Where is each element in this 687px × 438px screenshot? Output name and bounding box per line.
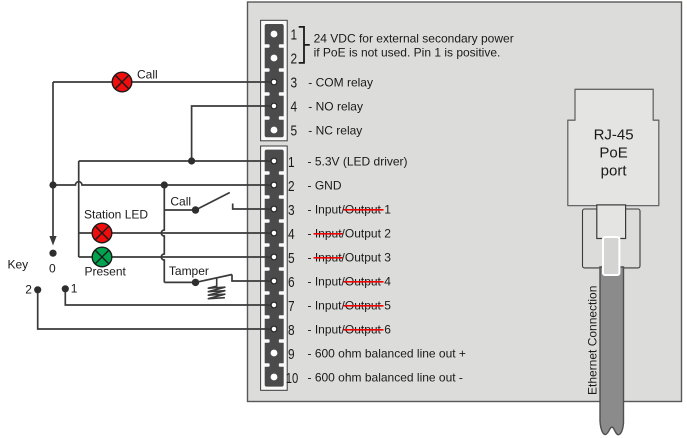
- key position 1 dot: [62, 285, 69, 292]
- junction GND/switch rail: [161, 181, 168, 188]
- svg-text:- NO relay: - NO relay: [308, 99, 363, 113]
- svg-text:4: 4: [291, 99, 298, 116]
- svg-text:0: 0: [49, 262, 56, 276]
- strike IO2: [314, 233, 343, 235]
- wire: NO relay J1-4 to 5.3V line: [192, 106, 273, 161]
- pin J2-8: [271, 326, 277, 332]
- svg-text:port: port: [601, 163, 628, 180]
- svg-text:- 600 ohm balanced line out -: - 600 ohm balanced line out -: [308, 370, 463, 384]
- connector J2 housing (10-pin): [261, 146, 288, 390]
- strike IO6: [344, 329, 384, 331]
- svg-text:5: 5: [288, 250, 295, 267]
- tamper spring: [208, 278, 225, 299]
- wire: 5.3V line to pin J2-1: [79, 160, 273, 162]
- wire: branch to tamper switch: [164, 281, 192, 283]
- pin J1-2: [271, 55, 278, 62]
- wire: GND line to pin J2-2 with hop: [53, 182, 273, 185]
- svg-text:2: 2: [288, 178, 295, 195]
- svg-text:- 600 ohm balanced line out +: - 600 ohm balanced line out +: [308, 346, 466, 360]
- pin J1-1: [271, 31, 278, 38]
- pin J1-4: [271, 103, 277, 109]
- strike IO3: [314, 257, 343, 259]
- junction 5.3V/NO relay: [188, 157, 195, 164]
- RJ-45 plug boot: [597, 205, 626, 239]
- svg-text:3: 3: [291, 75, 298, 92]
- pin J1-5: [271, 127, 278, 134]
- pin J2-1: [271, 158, 277, 164]
- strike IO4: [344, 281, 384, 283]
- call switch S1 lever: [196, 193, 230, 211]
- wire: key position 1 to pin J2-7: [65, 289, 273, 305]
- svg-text:if PoE is not used. Pin 1 is p: if PoE is not used. Pin 1 is positive.: [314, 46, 501, 60]
- key position 2 dot: [34, 286, 41, 293]
- RJ-45 plug outer shell: [583, 209, 641, 268]
- svg-text:2: 2: [25, 283, 32, 297]
- bracket pins 1-2: [299, 27, 310, 63]
- svg-text:Key: Key: [8, 258, 29, 272]
- wire: switch rail with hops: [161, 185, 164, 282]
- svg-text:RJ-45: RJ-45: [594, 127, 634, 144]
- svg-text:8: 8: [288, 322, 295, 339]
- pin J2-2: [271, 182, 277, 188]
- strike IO1: [344, 209, 384, 211]
- svg-text:1: 1: [291, 27, 298, 44]
- wire: left rail from call line to GND line: [52, 82, 54, 185]
- svg-text:3: 3: [288, 202, 295, 219]
- svg-text:- COM relay: - COM relay: [308, 75, 373, 89]
- connector J1 housing (5-pin): [261, 20, 288, 141]
- RJ-45 port outline: [568, 89, 659, 205]
- connector J1 notches: [264, 44, 285, 120]
- svg-text:Present: Present: [85, 265, 127, 279]
- RJ-45 plug clip tab: [603, 237, 619, 275]
- pin J2-5: [271, 254, 277, 260]
- svg-text:4: 4: [288, 226, 295, 243]
- svg-text:Call: Call: [137, 68, 158, 82]
- pin J2-10: [271, 374, 278, 381]
- svg-text:PoE: PoE: [599, 145, 627, 162]
- svg-text:Station LED: Station LED: [84, 208, 148, 222]
- call switch S1 pivot: [192, 206, 199, 213]
- wire: green LED line to pin J2-5: [79, 256, 273, 258]
- pin J2-4: [271, 230, 277, 236]
- svg-text:Ethernet Connection: Ethernet Connection: [586, 286, 600, 395]
- wire: LED rail left: [78, 161, 80, 257]
- svg-text:7: 7: [288, 298, 295, 315]
- connector J2 body: [265, 150, 284, 387]
- station LED red DS2: [92, 223, 112, 243]
- junction GND/key: [49, 181, 56, 188]
- ethernet cable: [600, 267, 624, 435]
- svg-text:24 VDC for external secondary: 24 VDC for external secondary power: [314, 32, 514, 46]
- device box U1: [248, 2, 682, 402]
- svg-text:- 5.3V (LED driver): - 5.3V (LED driver): [308, 154, 408, 168]
- pin J2-9: [271, 350, 278, 357]
- svg-text:Tamper: Tamper: [169, 264, 209, 278]
- pin J1-3: [271, 79, 277, 85]
- key wiper arrowhead: [49, 236, 56, 246]
- svg-text:- GND: - GND: [308, 178, 342, 192]
- wire: branch to call switch: [164, 209, 192, 211]
- svg-text:10: 10: [286, 370, 299, 387]
- pin J2-3: [271, 206, 277, 212]
- key switch common dot: [49, 250, 56, 257]
- strike IO5: [344, 305, 384, 307]
- tamper switch S2 pivot: [192, 279, 199, 286]
- connector J2 notches: [264, 171, 285, 367]
- connector J1 body: [265, 24, 284, 137]
- svg-text:Call: Call: [170, 195, 191, 209]
- wire: key wiper: [52, 185, 54, 237]
- wire: call switch contact to pin J2-3: [233, 204, 273, 210]
- svg-text:5: 5: [291, 123, 298, 140]
- svg-text:1: 1: [288, 154, 295, 171]
- pin J2-6: [271, 278, 277, 284]
- wire: tamper contact to pin J2-6: [232, 275, 273, 282]
- wire: call LED line to pin J1-3: [53, 81, 273, 83]
- station LED green DS3: [92, 247, 112, 267]
- wire: red LED line to pin J2-4: [79, 232, 273, 234]
- svg-text:6: 6: [288, 274, 295, 291]
- tamper switch S2 lever: [196, 275, 233, 283]
- pin J2-7: [271, 302, 277, 308]
- svg-text:9: 9: [288, 346, 295, 363]
- wire: key position 2 to pin J2-8: [38, 290, 273, 329]
- svg-text:2: 2: [291, 51, 298, 68]
- svg-text:1: 1: [71, 282, 78, 296]
- call LED DS1: [112, 72, 132, 92]
- svg-text:- NC relay: - NC relay: [308, 123, 362, 137]
